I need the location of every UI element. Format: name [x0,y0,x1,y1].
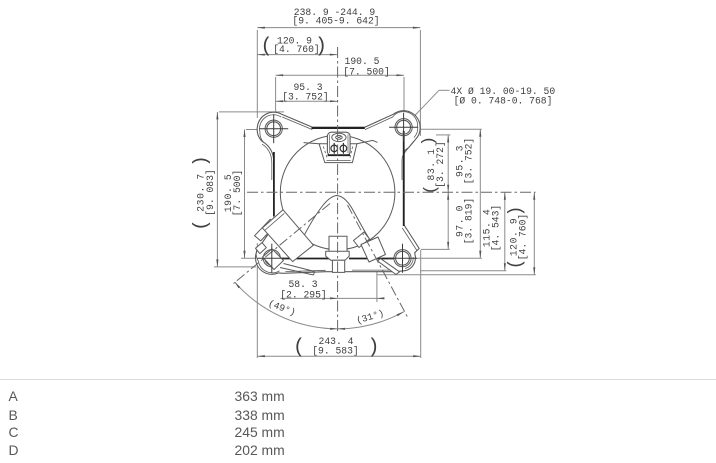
svg-text:(: ( [293,337,305,360]
dim: (120.9) top [257,35,337,58]
row B [9,407,18,423]
dim: (230.7) left [190,112,284,267]
svg-text:(: ( [260,36,272,59]
svg-text:[3. 819]: [3. 819] [464,198,475,245]
svg-text:[4. 760]: [4. 760] [273,44,320,55]
svg-text:(: ( [190,219,212,230]
svg-text:(: ( [507,259,527,270]
bottom T-shaped key feature [326,236,350,272]
dim: 58.3 bottom [280,263,384,302]
bolt hole top-left [265,120,282,137]
dim: (120.9) right [377,192,536,274]
dome curve inside circle [297,196,374,251]
svg-text:): ) [367,337,379,360]
table divider [0,379,716,380]
plate chamfer double lines [282,117,312,130]
plate outline [256,111,421,275]
row C [9,424,19,440]
svg-text:[7. 500]: [7. 500] [232,170,243,217]
bolt hole bottom-left [263,250,280,267]
dim: 190.5 horizontal [276,56,404,119]
centerline vertical [337,47,339,331]
svg-text:[3. 272]: [3. 272] [435,141,446,188]
centerline 31deg connector [348,205,408,317]
dim arcs: (49) and (31) angles [235,282,404,330]
central pilot circle [280,135,395,250]
centerline 49deg connector [234,204,331,284]
callout: 4X holes [410,86,555,120]
dim: (83.1) right [420,135,451,250]
centerline horizontal [247,191,536,193]
connector 31deg bottom-right [354,232,400,275]
svg-text:): ) [507,206,527,217]
dim: 95.3 top [276,82,338,102]
svg-text:[Ø 0. 748-0. 768]: [Ø 0. 748-0. 768] [454,96,553,107]
svg-text:(: ( [422,184,441,194]
dim: 95.3 right [412,129,482,258]
svg-text:): ) [190,155,212,166]
motor body thick silhouette [273,152,275,216]
svg-text:): ) [315,36,327,59]
dim: 115.4 right [420,192,506,270]
svg-text:[4. 760]: [4. 760] [518,214,529,261]
svg-text:[9. 083]: [9. 083] [205,169,216,216]
dim: overall width 238.9-244.9 [257,7,420,136]
svg-text:[3. 752]: [3. 752] [282,92,329,103]
bolt hole bottom-right [394,250,411,267]
svg-text:[9. 405-9. 642]: [9. 405-9. 642] [292,15,379,26]
svg-text:): ) [420,136,439,146]
dim: (243.4) bottom [257,243,420,360]
hole crosshairs [259,128,288,130]
svg-text:[4. 543]: [4. 543] [491,205,502,252]
bolt hole top-right [395,119,412,136]
row D [9,442,19,458]
svg-text:[2. 295]: [2. 295] [280,289,327,300]
dim: 190.5 left vertical [223,130,272,259]
svg-text:[9. 583]: [9. 583] [312,346,359,357]
connector 49deg bottom-left [255,210,315,275]
row A [9,388,18,404]
terminal box top center [304,132,378,162]
svg-text:[7. 500]: [7. 500] [343,66,390,77]
svg-text:[3. 752]: [3. 752] [464,138,475,185]
